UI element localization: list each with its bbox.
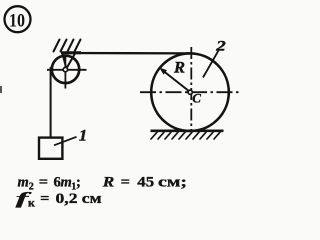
rope horizontal from pulley to cylinder top [62, 52, 190, 55]
horizontal centerline [140, 91, 239, 93]
pulley spokes cross [47, 55, 87, 89]
rope vertical down to block [50, 67, 52, 137]
problem number badge circle 10 [5, 6, 31, 32]
svg-text:см: см [82, 191, 102, 207]
svg-text:1: 1 [79, 128, 88, 145]
svg-text:45: 45 [137, 175, 154, 191]
pulley bracket triangle [63, 54, 76, 68]
pulley wheel [52, 56, 79, 83]
svg-text:;: ; [76, 175, 81, 191]
svg-text:=: = [121, 175, 130, 191]
leader line for label 1 [54, 137, 77, 146]
ground hatching [151, 132, 220, 139]
svg-text:0,2: 0,2 [56, 191, 78, 207]
pulley hub [63, 67, 67, 71]
radius arrow R [159, 67, 189, 91]
svg-text:см;: см; [158, 175, 187, 191]
svg-text:m: m [61, 175, 72, 191]
svg-text:R: R [173, 60, 185, 77]
ground line [151, 130, 224, 133]
cylinder 2 (disk) [151, 53, 229, 131]
formula text line 1 [18, 175, 188, 193]
vertical centerline [190, 47, 192, 131]
ceiling hatching [54, 40, 81, 52]
svg-text:2: 2 [29, 182, 34, 193]
smudge left edge [0, 86, 2, 93]
hub center C [188, 90, 192, 94]
svg-text:C: C [192, 90, 201, 105]
svg-text:к: к [28, 196, 35, 210]
formula text line 2 [16, 189, 102, 210]
svg-text:2: 2 [215, 39, 226, 55]
leader line for label 2 [203, 51, 219, 78]
svg-text:10: 10 [9, 10, 25, 31]
svg-text:R: R [102, 175, 115, 191]
block 1 (load) [39, 138, 62, 159]
svg-text:=: = [40, 191, 49, 207]
ceiling bar over pulley [61, 51, 81, 54]
svg-text:=: = [39, 175, 48, 191]
